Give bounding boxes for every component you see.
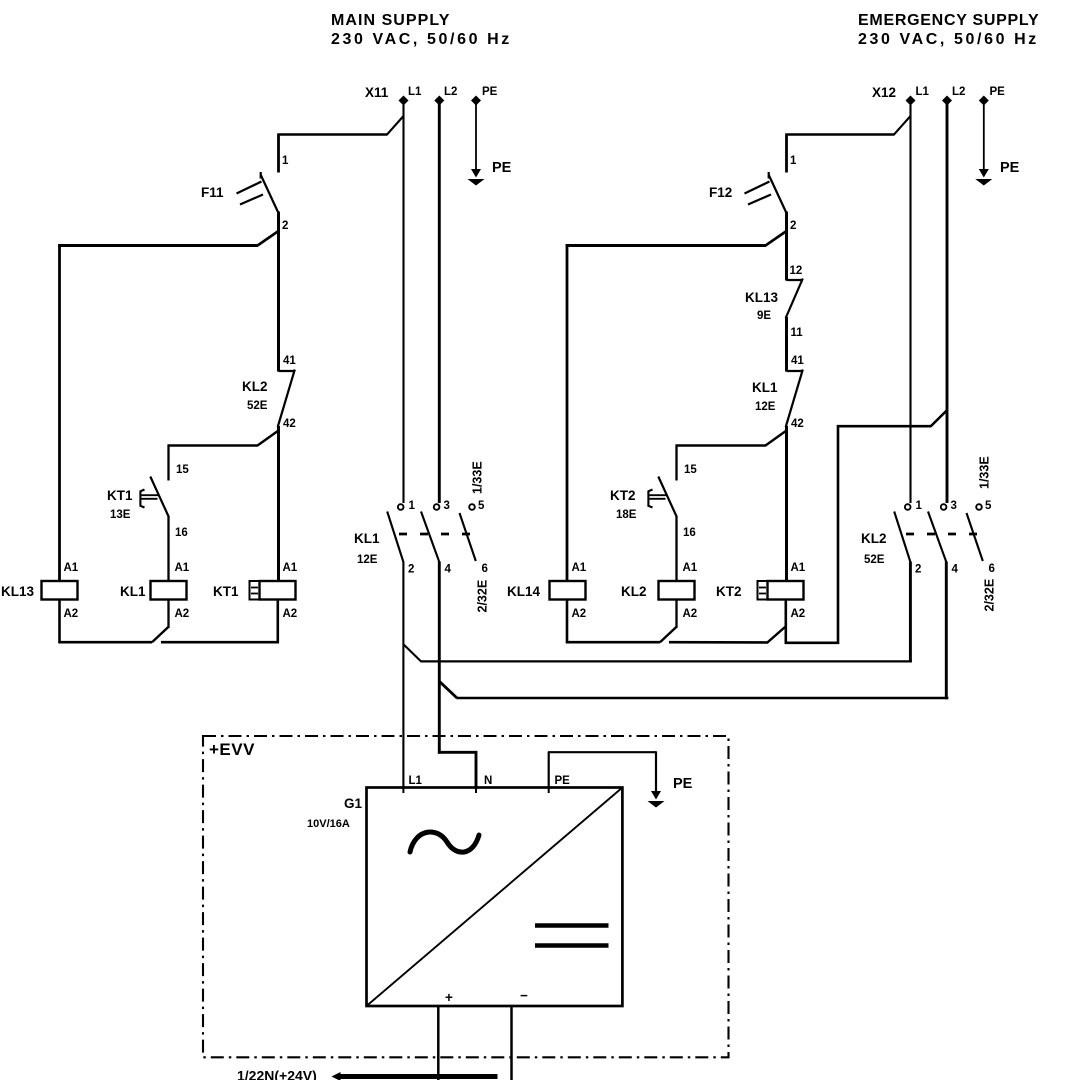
wire N-link riser to bus — [837, 410, 947, 644]
ground PE emergency — [975, 160, 1019, 186]
svg-text:1: 1 — [282, 155, 289, 167]
svg-text:12: 12 — [790, 265, 803, 277]
terminal X12:L2 — [942, 86, 965, 106]
svg-text:1/22N(+24V): 1/22N(+24V) — [237, 1068, 317, 1080]
svg-text:2/32E: 2/32E — [476, 580, 490, 613]
svg-text:KT1: KT1 — [213, 584, 239, 599]
fuse-breaker F11 — [201, 172, 278, 213]
wire X11 PE drop — [475, 100, 477, 169]
svg-text:A1: A1 — [683, 562, 698, 574]
linkage dashes KL2 — [906, 533, 978, 536]
svg-text:1: 1 — [916, 500, 923, 512]
svg-text:PE: PE — [555, 775, 571, 787]
wire pole4 down to cross N — [945, 562, 948, 700]
G1 terminal PE — [549, 775, 570, 793]
wire KL1 A2 drop — [167, 600, 169, 629]
svg-text:3: 3 — [951, 500, 957, 512]
node 42 branch left (to KT1 contact) — [168, 431, 279, 481]
svg-text:X11: X11 — [365, 85, 389, 100]
svg-text:A2: A2 — [175, 608, 190, 620]
svg-text:KT2: KT2 — [716, 584, 742, 599]
wire pole2 down to G1 L1 — [402, 562, 404, 789]
coil KL1 — [120, 562, 190, 620]
svg-text:41: 41 — [283, 355, 296, 367]
contact KT1 timed NO — [107, 477, 169, 522]
wire branch from L1 to fuse chain — [278, 116, 404, 173]
svg-text:42: 42 — [791, 418, 804, 430]
wire -24V down — [510, 1006, 513, 1080]
terminal X12:PE — [979, 86, 1005, 106]
wire 42 to KT2 coil A1 — [785, 426, 788, 581]
wire A2 bus emergency — [566, 627, 839, 643]
svg-text:6: 6 — [989, 563, 995, 575]
svg-text:A1: A1 — [175, 562, 190, 574]
wire 42 to KT1 coil A1 — [277, 426, 280, 581]
coil KL13 — [1, 562, 79, 620]
svg-text:4: 4 — [445, 564, 452, 576]
header MAIN SUPPLY — [331, 12, 512, 48]
svg-text:230 VAC, 50/60 Hz: 230 VAC, 50/60 Hz — [331, 31, 512, 48]
wire KT2 A2 drop — [784, 600, 787, 644]
svg-text:1: 1 — [790, 155, 797, 167]
svg-text:F12: F12 — [709, 185, 732, 200]
svg-text:KL14: KL14 — [507, 584, 541, 599]
svg-text:L2: L2 — [952, 86, 965, 98]
node 2 branch left (to KL14 coil) — [566, 231, 787, 581]
wire L2 emergency vertical — [946, 100, 949, 503]
wire +24V down — [437, 1006, 440, 1080]
svg-text:KL2: KL2 — [861, 531, 887, 546]
G1 DC equals symbol — [535, 926, 609, 946]
svg-text:KL2: KL2 — [621, 584, 647, 599]
svg-text:A1: A1 — [64, 562, 79, 574]
wire L1 main vertical — [402, 100, 404, 503]
svg-text:A2: A2 — [683, 608, 698, 620]
G1 terminal L1 — [403, 775, 422, 793]
svg-text:16: 16 — [175, 527, 188, 539]
wire 11 to 41 — [785, 317, 788, 372]
wire branch from L1 to fuse chain emergency — [786, 116, 911, 173]
contactor KL2 pole 1-2 — [894, 500, 922, 576]
svg-text:F11: F11 — [201, 185, 224, 200]
svg-text:A1: A1 — [791, 562, 806, 574]
svg-text:PE: PE — [990, 86, 1006, 98]
svg-text:4: 4 — [952, 564, 959, 576]
svg-text:KL2: KL2 — [242, 379, 268, 394]
svg-text:PE: PE — [673, 776, 693, 792]
contact KL13 12-11 (NC) — [745, 265, 803, 339]
terminal X11:L2 — [434, 86, 457, 106]
terminal X11:L1 — [399, 86, 423, 106]
svg-text:2: 2 — [790, 220, 796, 232]
G1 AC tilde symbol — [410, 832, 479, 852]
coil KT2 (timer) — [716, 562, 806, 620]
svg-text:A2: A2 — [572, 608, 587, 620]
svg-text:230 VAC, 50/60 Hz: 230 VAC, 50/60 Hz — [858, 31, 1039, 48]
wire pole4 down (N path) — [438, 562, 441, 754]
contact KT2 timed NO — [610, 477, 677, 522]
contactor KL2 pole 5-6 (aux ref) — [967, 500, 995, 575]
svg-text:+: + — [445, 990, 453, 1005]
G1 ac/dc divider diagonal — [367, 788, 623, 1007]
node 2 branch left (to KL13 coil) — [58, 231, 278, 581]
svg-text:15: 15 — [684, 464, 697, 476]
svg-text:2: 2 — [408, 564, 414, 576]
svg-text:13E: 13E — [110, 509, 131, 521]
svg-text:12E: 12E — [755, 401, 776, 413]
header EMERGENCY SUPPLY — [858, 12, 1039, 48]
svg-text:18E: 18E — [616, 509, 637, 521]
svg-text:A2: A2 — [64, 608, 79, 620]
wire 16 to KL1 coil A1 — [167, 517, 169, 582]
svg-text:11: 11 — [791, 327, 804, 339]
svg-text:L1: L1 — [408, 86, 422, 98]
wire X12 PE drop — [983, 100, 985, 169]
svg-text:MAIN SUPPLY: MAIN SUPPLY — [331, 12, 450, 29]
svg-text:G1: G1 — [344, 796, 363, 811]
node 42 branch left (to KT2 contact) — [676, 431, 787, 481]
svg-text:15: 15 — [176, 464, 189, 476]
svg-text:12E: 12E — [357, 554, 378, 566]
wire KL2 A2 drop — [675, 600, 677, 629]
ground PE main — [468, 160, 512, 186]
svg-text:A2: A2 — [283, 608, 298, 620]
svg-text:PE: PE — [1000, 160, 1020, 176]
svg-text:PE: PE — [482, 86, 498, 98]
svg-text:10V/16A: 10V/16A — [307, 818, 350, 830]
svg-text:KL13: KL13 — [745, 290, 779, 305]
contactor KL2 pole 3-4 — [928, 500, 959, 576]
svg-text:KT2: KT2 — [610, 488, 636, 503]
wire N-out cross horizontal — [457, 697, 949, 700]
wire KT1 A2 drop — [276, 600, 279, 644]
svg-text:KL1: KL1 — [120, 584, 146, 599]
enclosure +EVV dashed box — [203, 736, 729, 1057]
svg-text:52E: 52E — [864, 554, 885, 566]
terminal X12:L1 — [906, 86, 930, 106]
svg-text:L2: L2 — [444, 86, 457, 98]
wire L1 emergency vertical — [909, 100, 911, 503]
bus +24V bottom — [237, 1068, 498, 1080]
contactor KL1 pole 3-4 — [421, 500, 452, 576]
svg-text:A1: A1 — [572, 562, 587, 574]
svg-text:KL1: KL1 — [752, 380, 778, 395]
wire 16 to KL2 coil A1 — [675, 517, 677, 582]
wire G1 PE to arrow — [548, 751, 656, 791]
contactor KL1 pole 5-6 (aux ref) — [460, 500, 488, 575]
svg-text:PE: PE — [492, 160, 512, 176]
svg-text:1/33E: 1/33E — [471, 461, 485, 494]
svg-text:KT1: KT1 — [107, 488, 133, 503]
contact KL1 41-42 (NC interlock) — [752, 355, 804, 430]
svg-text:A2: A2 — [791, 608, 806, 620]
svg-text:3: 3 — [444, 500, 450, 512]
power supply G1 box — [367, 788, 623, 1007]
svg-text:5: 5 — [478, 500, 485, 512]
svg-text:L1: L1 — [916, 86, 930, 98]
svg-text:52E: 52E — [247, 400, 268, 412]
wire L2 main vertical — [438, 100, 441, 503]
linkage dashes KL1 — [399, 533, 471, 536]
svg-text:L1: L1 — [409, 775, 423, 787]
coil KT1 (timer) — [213, 562, 298, 620]
svg-text:−: − — [520, 988, 528, 1003]
contactor KL1 pole 1-2 — [387, 500, 415, 576]
G1 terminal N — [476, 775, 492, 793]
wire N jog into G1 — [438, 751, 476, 788]
coil KL2 — [621, 562, 698, 620]
svg-text:9E: 9E — [757, 310, 771, 322]
terminal X11:PE — [471, 86, 498, 106]
svg-text:KL1: KL1 — [354, 531, 380, 546]
svg-text:41: 41 — [791, 355, 804, 367]
svg-text:6: 6 — [482, 563, 488, 575]
svg-text:2: 2 — [915, 564, 921, 576]
svg-text:1: 1 — [409, 500, 416, 512]
junction jog L1-out main — [403, 644, 421, 661]
svg-text:KL13: KL13 — [1, 584, 35, 599]
svg-text:N: N — [484, 775, 492, 787]
svg-text:A1: A1 — [283, 562, 298, 574]
svg-text:5: 5 — [985, 500, 992, 512]
wire fuse to contact 41 — [277, 212, 280, 372]
coil KL14 — [507, 562, 587, 620]
svg-text:16: 16 — [683, 527, 696, 539]
wire KL14 A2 drop — [566, 600, 569, 644]
label KL2 poles — [861, 531, 887, 566]
wire L1-out cross horizontal — [421, 660, 912, 662]
svg-text:EMERGENCY SUPPLY: EMERGENCY SUPPLY — [858, 12, 1039, 29]
wire A2 bus main — [58, 627, 279, 642]
wire fuse to contact 12 — [785, 212, 788, 281]
contact KL2 41-42 (NC interlock) — [242, 355, 296, 430]
wire KL13 A2 drop — [58, 600, 61, 644]
ground PE at G1 — [648, 776, 693, 808]
svg-text:1/33E: 1/33E — [978, 456, 992, 489]
svg-text:X12: X12 — [872, 85, 896, 100]
junction jog N-out main — [439, 681, 457, 698]
svg-text:2/32E: 2/32E — [983, 579, 997, 612]
wire pole2 down to cross L1 — [909, 562, 912, 663]
fuse-breaker F12 — [709, 172, 786, 213]
svg-text:42: 42 — [283, 418, 296, 430]
svg-text:+EVV: +EVV — [209, 740, 255, 759]
label KL1 poles — [354, 531, 380, 566]
svg-text:2: 2 — [282, 220, 288, 232]
